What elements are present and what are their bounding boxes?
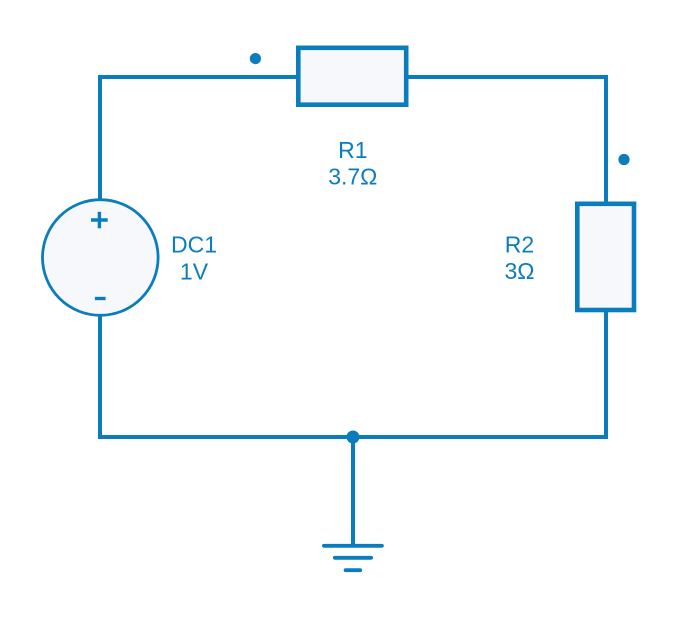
svg-text:R1: R1 [338, 137, 367, 163]
wire from R1 pin 2 right and down to R2 pin 1 [406, 77, 606, 204]
wire from R2 pin 2 down, along bottom, up to DC1 negative terminal [100, 310, 606, 437]
svg-text:1V: 1V [180, 258, 209, 284]
DC1 plus sign [91, 212, 108, 229]
voltage source DC1 circle [43, 200, 159, 316]
svg-text:3Ω: 3Ω [505, 258, 535, 284]
resistor R2 body [577, 204, 634, 310]
wire from DC1 positive terminal up and right to R1 pin 1 [100, 77, 298, 202]
node dot near R1 pin 1 [250, 53, 261, 64]
wire ground stem [351, 437, 355, 546]
junction node at bottom wire and ground [347, 431, 360, 444]
ground symbol [324, 546, 382, 570]
svg-text:DC1: DC1 [171, 232, 217, 258]
DC1 minus sign [95, 297, 106, 300]
svg-text:3.7Ω: 3.7Ω [328, 163, 377, 189]
svg-text:R2: R2 [505, 231, 534, 257]
node dot near R2 pin 1 [618, 154, 629, 165]
resistor R1 body [298, 48, 406, 105]
